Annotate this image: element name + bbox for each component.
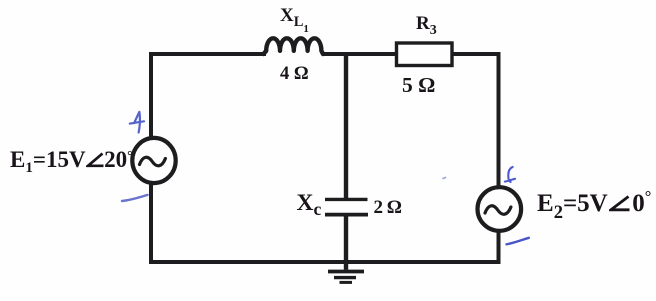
annotation blue dot right of E2 wire <box>443 178 446 179</box>
label E1 = 15V angle 20deg <box>10 148 133 171</box>
annotation blue arrow above E1 <box>130 112 144 133</box>
wire inductor to resistor <box>322 52 397 56</box>
value 5 ohm (R3) <box>402 75 435 97</box>
source E2 <box>478 187 522 231</box>
annotation blue dash below E1 <box>122 195 148 201</box>
wire middle vertical lower <box>344 216 348 262</box>
capacitor XC <box>325 199 368 214</box>
ground <box>328 262 364 282</box>
label R3 <box>416 14 437 33</box>
resistor R3 <box>397 43 453 66</box>
annotation blue swoosh below E2 <box>507 238 529 245</box>
value 4 ohm (XL1) <box>280 65 309 84</box>
inductor XL1 <box>264 38 324 54</box>
wire left vertical lower <box>149 182 153 264</box>
source E1 <box>132 138 175 183</box>
wire left vertical upper <box>149 52 153 140</box>
label XL1 <box>280 6 309 25</box>
label E2 = 5V angle 0deg <box>537 191 651 216</box>
junction node middle-top <box>344 52 348 56</box>
wire right vertical lower <box>497 231 501 264</box>
value 2 ohm (XC) <box>374 198 403 217</box>
wire middle vertical upper <box>344 54 348 198</box>
wire top-left segment <box>151 52 266 54</box>
wire right vertical upper <box>497 54 501 187</box>
annotation blue curl above E2 <box>505 167 515 182</box>
wire resistor to top-right corner <box>451 54 499 56</box>
wire bottom <box>149 260 501 264</box>
label XC <box>297 192 322 216</box>
